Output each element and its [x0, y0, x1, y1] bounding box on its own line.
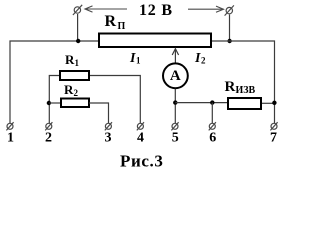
- resistor Rизв: body: [228, 98, 261, 109]
- wire: ammeter down to terminal 5: [174, 89, 176, 123]
- wire: R1 left lead down to terminal 2: [49, 76, 60, 124]
- arrow: right dimension arrow for 12 V: [188, 6, 224, 12]
- terminal 7: [270, 122, 277, 130]
- wire: bottom bus from ammeter node to Rизв: [175, 102, 227, 104]
- svg-text:1: 1: [75, 58, 80, 68]
- svg-text:I: I: [194, 51, 201, 66]
- wire: wiper arrow from ammeter up to potentiometer: [172, 49, 178, 64]
- terminal 2: [45, 122, 52, 130]
- terminal 1: [6, 122, 13, 130]
- svg-text:R: R: [64, 82, 74, 97]
- svg-text:П: П: [118, 21, 126, 32]
- svg-text:7: 7: [270, 131, 277, 146]
- wire: left vertical rail from top bus to terminal 1: [10, 41, 98, 123]
- svg-text:5: 5: [172, 131, 179, 146]
- wire: R1 right lead down to terminal 4: [90, 76, 140, 124]
- svg-text:ИЗВ: ИЗВ: [236, 85, 256, 96]
- svg-text:1: 1: [7, 131, 14, 146]
- arrow: left dimension arrow for 12 V: [85, 6, 127, 12]
- node: junction below ammeter: [173, 100, 177, 104]
- wire: drop to terminal 6: [211, 103, 213, 123]
- svg-text:2: 2: [74, 88, 79, 98]
- terminal 3: [105, 122, 112, 130]
- svg-text:3: 3: [105, 131, 112, 146]
- op-amp: ammeter A (round meter): [163, 63, 188, 88]
- svg-text:4: 4: [137, 131, 144, 146]
- node: junction of right supply drop and bus: [227, 39, 231, 43]
- svg-text:R: R: [65, 52, 75, 67]
- resistor RП: potentiometer body: [99, 34, 211, 48]
- node: junction of Rизв and right rail: [272, 101, 276, 105]
- wire: top-right bus from potentiometer to right rail down to node: [212, 41, 275, 123]
- svg-text:А: А: [170, 68, 181, 84]
- terminal 6: [209, 122, 216, 130]
- svg-text:1: 1: [136, 56, 141, 66]
- node: junction above terminal 6: [210, 100, 214, 104]
- terminal: top-left supply terminal (circle with slash): [73, 5, 82, 15]
- svg-text:2: 2: [45, 131, 52, 146]
- terminal: top-right supply terminal (circle with slash): [225, 5, 234, 15]
- wire: drop from top-right supply terminal to bus: [229, 15, 231, 42]
- svg-text:Рис.3: Рис.3: [120, 152, 163, 171]
- wire: R2 left lead: [49, 102, 61, 104]
- svg-text:R: R: [105, 13, 117, 30]
- svg-text:12 В: 12 В: [139, 2, 173, 19]
- svg-text:R: R: [225, 79, 236, 95]
- wire: drop from top-left supply terminal to bus: [77, 14, 79, 41]
- node: junction of supply drop and left bus: [76, 39, 80, 43]
- svg-text:6: 6: [209, 131, 216, 146]
- resistor R1: body: [60, 71, 89, 80]
- node: junction of R2 left lead on terminal-2 rail: [47, 101, 51, 105]
- resistor R2: body: [61, 99, 89, 108]
- wire: R2 right lead down to terminal 3: [89, 103, 109, 123]
- svg-text:2: 2: [201, 56, 206, 66]
- terminal 4: [137, 122, 144, 130]
- svg-text:I: I: [129, 51, 136, 66]
- wire: Rизв to right rail: [262, 102, 275, 104]
- terminal 5: [171, 122, 178, 130]
